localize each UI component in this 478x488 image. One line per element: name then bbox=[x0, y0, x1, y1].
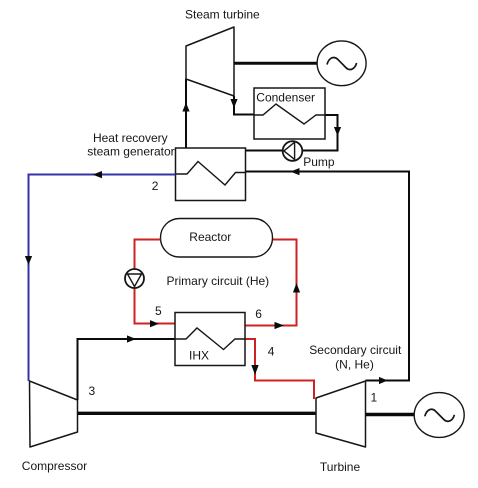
svg-text:5: 5 bbox=[155, 304, 162, 318]
IHX heat exchanger bbox=[175, 313, 245, 366]
wire HRSG to compressor (blue) bbox=[25, 171, 176, 381]
svg-text:Turbine: Turbine bbox=[320, 460, 361, 474]
label Reactor bbox=[189, 230, 231, 244]
svg-text:IHX: IHX bbox=[189, 348, 209, 362]
circulator pump primary bbox=[125, 269, 144, 288]
svg-text:Steam turbine: Steam turbine bbox=[185, 8, 260, 22]
node 1 bbox=[371, 391, 378, 405]
label Compressor bbox=[22, 459, 87, 473]
pump P1 bbox=[283, 141, 303, 161]
turbine bbox=[316, 381, 366, 447]
node 6 bbox=[255, 307, 262, 321]
svg-text:Heat recovery: Heat recovery bbox=[93, 131, 168, 145]
svg-text:2: 2 bbox=[152, 179, 159, 193]
svg-text:Condenser: Condenser bbox=[256, 91, 315, 105]
reactor bbox=[161, 219, 273, 258]
steam turbine bbox=[186, 27, 234, 96]
label Secondary circuit (N, He) bbox=[309, 343, 402, 371]
wire compressor outlet to IHX (black) bbox=[78, 335, 176, 400]
svg-text:Reactor: Reactor bbox=[189, 230, 231, 244]
svg-text:4: 4 bbox=[268, 345, 275, 359]
svg-text:(N, He): (N, He) bbox=[335, 358, 374, 372]
label Primary circuit (He) bbox=[167, 274, 270, 288]
generator G2 bbox=[414, 393, 464, 438]
svg-text:Compressor: Compressor bbox=[22, 459, 87, 473]
wire condensate condenser to pump bbox=[246, 115, 341, 151]
wire steam exhaust to condenser bbox=[230, 96, 254, 115]
label Steam turbine bbox=[185, 8, 260, 22]
condenser bbox=[254, 88, 325, 139]
node 4 bbox=[268, 345, 275, 359]
svg-text:steam generator: steam generator bbox=[87, 145, 174, 159]
shaft steam turbine to generator bbox=[234, 62, 319, 65]
wire IHX to turbine (red, node 4) bbox=[245, 339, 314, 399]
wire steam line HRSG to steam turbine bbox=[182, 79, 189, 148]
label IHX bbox=[189, 348, 209, 362]
svg-text:Primary circuit (He): Primary circuit (He) bbox=[167, 274, 270, 288]
wire IHX right to reactor (red, primary, node 6) bbox=[245, 240, 300, 330]
heat recovery steam generator bbox=[176, 148, 246, 201]
compressor bbox=[30, 381, 78, 447]
svg-text:1: 1 bbox=[371, 391, 378, 405]
node 3 bbox=[89, 384, 96, 398]
svg-text:3: 3 bbox=[89, 384, 96, 398]
svg-text:6: 6 bbox=[255, 307, 262, 321]
wire turbine exhaust to HRSG (black, right side) bbox=[246, 168, 410, 384]
wire reactor to IHX left (red, primary) bbox=[135, 240, 176, 328]
svg-text:Pump: Pump bbox=[303, 155, 335, 169]
label Pump bbox=[303, 155, 335, 169]
generator G1 bbox=[317, 41, 366, 86]
label Turbine bbox=[320, 460, 361, 474]
node 2 bbox=[152, 179, 159, 193]
shaft turbine to generator bbox=[366, 413, 416, 416]
shaft compressor to turbine bbox=[78, 412, 318, 415]
node 5 bbox=[155, 304, 162, 318]
label Condenser bbox=[256, 91, 315, 105]
label Heat recovery steam generator bbox=[87, 131, 174, 159]
svg-text:Secondary circuit: Secondary circuit bbox=[309, 343, 402, 357]
